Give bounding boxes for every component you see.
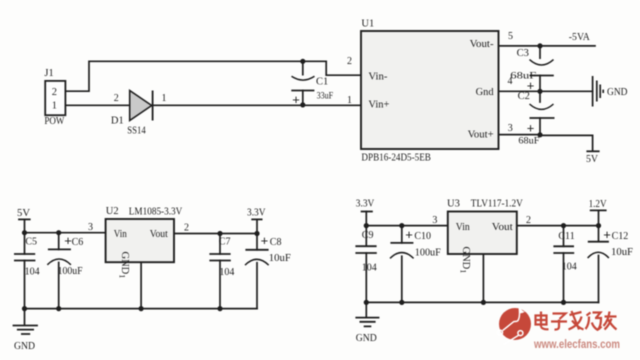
node junction 3.3V rail at C9: [364, 223, 369, 228]
svg-text:2: 2: [184, 223, 189, 234]
svg-text:5V: 5V: [17, 208, 30, 219]
connector J1 box: [45, 81, 65, 115]
node junction ground rail at C6: [56, 306, 61, 311]
wire U2 pin1 GND down: [140, 262, 142, 308]
svg-text:GND: GND: [356, 333, 377, 344]
svg-text:3: 3: [508, 123, 513, 134]
node junction ground rail at C5: [22, 306, 27, 311]
wire U1 pin3 Vout+ to 5V bar: [499, 135, 593, 151]
wire GND stem right section: [365, 302, 367, 316]
node junction ground rail at U2 pin1: [139, 306, 144, 311]
svg-text:+: +: [261, 233, 269, 248]
svg-text:2: 2: [347, 56, 352, 67]
watermark logo white trace glyph: [498, 308, 523, 344]
svg-text:100uF: 100uF: [415, 248, 441, 259]
svg-text:+: +: [527, 120, 535, 135]
svg-text:U2: U2: [106, 206, 119, 217]
capacitor C3 straight plate: [530, 75, 554, 77]
op-amp U2 regulator box: [106, 219, 174, 262]
svg-text:3.3V: 3.3V: [356, 199, 375, 210]
svg-text:Vout: Vout: [150, 229, 168, 240]
node junction at C1 top: [300, 59, 305, 64]
svg-text:POW: POW: [44, 116, 64, 127]
svg-text:C12: C12: [612, 231, 629, 242]
svg-text:104: 104: [219, 267, 234, 278]
wire GND stem left: [24, 309, 26, 325]
svg-text:1: 1: [162, 93, 167, 104]
capacitor C2 curved plate: [530, 104, 554, 109]
capacitor C5 plates: [14, 254, 35, 261]
svg-text:Vin: Vin: [114, 229, 128, 240]
wire U1 pin5 Vout- to -5VA: [499, 45, 596, 47]
power 5V bar symbol left section: [18, 218, 31, 220]
capacitor C6 stems: [58, 233, 60, 309]
node junction ground rail right at GND stem: [364, 300, 369, 305]
svg-text:2: 2: [52, 87, 57, 98]
wire U3 pin1 GND down: [482, 254, 484, 302]
svg-text:Gnd: Gnd: [476, 87, 495, 98]
capacitor C8 curved plate: [245, 259, 269, 265]
svg-text:-5VA: -5VA: [569, 32, 590, 43]
wire J1 pin2 to node Vin-: [65, 61, 361, 91]
node junction 1.2V rail at C12: [596, 223, 601, 228]
svg-text:Vin+: Vin+: [368, 100, 389, 111]
svg-text:10uF: 10uF: [269, 253, 291, 264]
node junction 1.2V rail at C11: [561, 223, 566, 228]
op-amp U3 regulator box: [448, 212, 517, 255]
wire bottom ground rail left section: [25, 308, 258, 310]
svg-text:2: 2: [526, 215, 531, 226]
svg-text:C7: C7: [219, 237, 231, 248]
svg-text:104: 104: [25, 266, 40, 277]
svg-text:2: 2: [114, 93, 119, 104]
svg-text:104: 104: [562, 262, 577, 273]
svg-text:Vout-: Vout-: [470, 39, 495, 50]
svg-text:+: +: [603, 227, 611, 242]
node junction Vout+ rail: [537, 132, 542, 137]
svg-text:U3: U3: [447, 198, 460, 209]
op-amp U1 DC-DC module box: [361, 31, 499, 149]
svg-text:DPB16-24D5-5EB: DPB16-24D5-5EB: [361, 153, 431, 164]
svg-text:GND1: GND1: [459, 247, 472, 274]
node junction Vout- rail: [537, 43, 542, 48]
capacitor C1 straight plate: [291, 90, 314, 92]
capacitor C1 stems: [302, 61, 304, 105]
capacitor C1 curved plate: [292, 76, 315, 80]
svg-text:1.2V: 1.2V: [589, 199, 607, 210]
capacitor C6 curved plate: [47, 259, 71, 265]
node junction at C1 bottom: [300, 102, 305, 107]
svg-text:C3: C3: [517, 48, 529, 59]
capacitor C7 plates: [209, 254, 230, 261]
svg-text:C11: C11: [558, 231, 574, 242]
svg-text:C1: C1: [316, 76, 328, 87]
svg-text:33uF: 33uF: [317, 91, 334, 101]
watermark logo red disc: [499, 308, 531, 340]
svg-text:www.elecfans.com: www.elecfans.com: [533, 339, 620, 351]
ground GND symbol right (power ground bars): [593, 76, 604, 107]
capacitor C11 stems: [563, 226, 565, 303]
svg-text:10uF: 10uF: [611, 247, 633, 258]
wire U1 pin4 Gnd to GND symbol: [499, 90, 593, 92]
node junction Gnd rail: [537, 89, 542, 94]
capacitor C8 stems: [256, 234, 258, 309]
wire 5V terminal to U2 Vin rail: [25, 219, 106, 232]
svg-text:+: +: [405, 227, 413, 242]
svg-text:5V: 5V: [586, 154, 599, 165]
capacitor C3 curved plate: [530, 60, 554, 65]
watermark text dianzifashaoyou (hand-drawn hanzi strokes): [536, 311, 617, 330]
svg-text:Vin-: Vin-: [368, 72, 388, 83]
svg-text:C2: C2: [518, 91, 530, 102]
node junction 3.3V rail at C8: [254, 231, 259, 236]
svg-text:SS14: SS14: [127, 125, 146, 136]
svg-text:100uF: 100uF: [58, 266, 83, 277]
svg-text:68uF: 68uF: [518, 137, 539, 147]
wire U3 Vout to 1.2V rail: [517, 225, 599, 227]
svg-text:D1: D1: [111, 115, 124, 126]
node junction ground rail right at C10: [399, 300, 404, 305]
svg-text:Vout+: Vout+: [468, 130, 494, 141]
capacitor C6 straight plate: [48, 248, 71, 250]
svg-text:C10: C10: [414, 231, 431, 242]
svg-text:TLV117-1.2V: TLV117-1.2V: [471, 199, 523, 210]
node junction 3.3V rail at C7: [217, 231, 222, 236]
svg-text:1: 1: [52, 101, 57, 112]
svg-text:1: 1: [347, 95, 352, 106]
ground earth symbol right section: [355, 318, 379, 327]
capacitor C12 stems: [598, 226, 600, 303]
svg-text:C6: C6: [72, 237, 84, 248]
diode D1 anode triangle: [130, 91, 152, 121]
power 5V bar symbol top section: [586, 150, 599, 152]
wire U2 Vout to 3.3V rail: [174, 233, 257, 235]
svg-text:GND1: GND1: [117, 252, 130, 279]
svg-text:LM1085-3.3V: LM1085-3.3V: [129, 207, 183, 218]
svg-text:C5: C5: [25, 237, 37, 248]
wire 3.3V terminal stem: [256, 219, 258, 233]
svg-text:C8: C8: [270, 237, 282, 248]
node junction 5V rail at C5: [22, 230, 27, 235]
svg-text:3.3V: 3.3V: [247, 207, 266, 218]
diode D1 cathode bar: [152, 91, 154, 121]
node junction ground rail right at U3 pin1: [481, 300, 486, 305]
capacitor C7 stems: [219, 234, 221, 309]
svg-text:Vout: Vout: [492, 222, 513, 233]
capacitor C10 curved plate: [390, 253, 414, 259]
svg-text:3: 3: [432, 215, 437, 226]
wire 3.3V terminal to U3 Vin rail: [366, 212, 448, 226]
capacitor C9 stems: [365, 226, 367, 303]
watermark logo hook notch: [520, 307, 525, 314]
svg-text:+: +: [292, 92, 300, 107]
capacitor C8 straight plate: [245, 249, 268, 251]
svg-text:GND: GND: [14, 341, 35, 352]
svg-text:104: 104: [362, 262, 377, 273]
svg-text:U1: U1: [361, 19, 374, 30]
wire J1 pin1 through D1 to U1 Vin+: [65, 104, 361, 106]
power 1.2V bar symbol: [590, 209, 607, 211]
svg-text:J1: J1: [44, 68, 53, 79]
node junction 3.3V rail at C10: [399, 223, 404, 228]
capacitor C10 stems: [401, 226, 403, 303]
capacitor C9 plates: [355, 246, 376, 253]
capacitor C12 straight plate: [588, 241, 609, 243]
power 3.3V bar symbol left section: [251, 218, 262, 220]
capacitor C11 plates: [553, 246, 574, 253]
svg-text:5: 5: [508, 31, 513, 42]
capacitor C2 straight plate: [530, 117, 555, 119]
capacitor C3 stems: [539, 46, 541, 91]
capacitor C10 straight plate: [390, 242, 413, 244]
svg-text:3: 3: [88, 222, 93, 233]
power 3.3V bar symbol right section: [361, 211, 373, 213]
capacitor C2 stems: [539, 91, 541, 134]
ground earth symbol left section: [13, 326, 38, 335]
svg-text:C9: C9: [362, 230, 374, 241]
wire 1.2V terminal stem: [598, 210, 600, 225]
capacitor C12 curved plate: [588, 252, 609, 258]
node junction 5V rail at C6: [56, 230, 61, 235]
capacitor C5 stems: [24, 233, 26, 309]
svg-text:GND: GND: [607, 87, 628, 98]
wire bottom ground rail right section: [366, 301, 598, 303]
node junction ground rail at C7: [217, 306, 222, 311]
svg-text:Vin: Vin: [456, 222, 471, 233]
node junction ground rail right at C11: [561, 300, 566, 305]
